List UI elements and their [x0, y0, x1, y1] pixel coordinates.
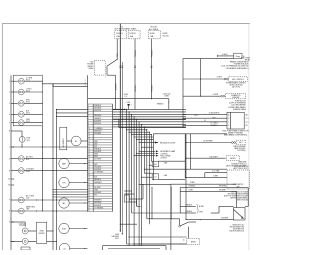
svg-text:24: 24	[88, 164, 90, 166]
svg-text:BLU/WHT: BLU/WHT	[94, 159, 101, 161]
svg-text:Relay: Relay	[236, 56, 240, 58]
svg-text:B5: B5	[246, 125, 248, 127]
svg-text:4 GRN: 4 GRN	[222, 54, 228, 56]
svg-text:BLK/WHT: BLK/WHT	[94, 192, 101, 194]
svg-text:GRN/BLK: GRN/BLK	[94, 118, 102, 120]
svg-text:RED/BLK: RED/BLK	[94, 179, 102, 181]
svg-text:GRN/WHT: GRN/WHT	[94, 182, 102, 184]
svg-text:21: 21	[88, 156, 90, 158]
svg-text:BLOCK: BLOCK	[163, 35, 170, 37]
svg-text:OUTPUT: OUTPUT	[160, 158, 166, 160]
svg-text:7 WHT: 7 WHT	[188, 189, 193, 191]
svg-text:26: 26	[88, 169, 90, 171]
svg-text:PNK/BLK: PNK/BLK	[185, 204, 193, 206]
svg-text:LT GRN/BLK: LT GRN/BLK	[94, 207, 104, 209]
svg-text:CLUSTER): CLUSTER)	[237, 150, 246, 152]
svg-text:H: H	[9, 222, 10, 224]
svg-text:DRIVER: DRIVER	[38, 233, 45, 235]
svg-text:5: 5	[105, 76, 106, 78]
svg-text:39: 39	[88, 202, 90, 204]
svg-text:PPL/WHT: PPL/WHT	[94, 133, 101, 135]
svg-text:(4P, 2P-R): (4P, 2P-R)	[232, 87, 240, 89]
svg-text:F: F	[9, 200, 10, 202]
svg-text:E3: E3	[8, 185, 10, 187]
svg-text:32: 32	[88, 184, 90, 186]
svg-text:IGNITION COIL: IGNITION COIL	[232, 224, 244, 226]
svg-text:27: 27	[88, 172, 90, 174]
svg-text:PNK/BLK: PNK/BLK	[185, 211, 193, 213]
svg-text:15: 15	[88, 141, 90, 143]
svg-text:S128: S128	[127, 102, 131, 104]
svg-text:13: 13	[88, 136, 90, 138]
svg-text:1: 1	[9, 81, 10, 83]
svg-text:B: B	[9, 131, 10, 133]
svg-text:A/C CONTROL: A/C CONTROL	[232, 78, 244, 81]
svg-text:36: 36	[88, 195, 90, 197]
svg-text:C1 +: C1 +	[246, 118, 249, 120]
svg-text:BRN/WHT: BRN/WHT	[94, 200, 101, 202]
svg-text:FUEL PUMP: FUEL PUMP	[241, 57, 250, 59]
svg-text:LOW OIL: LOW OIL	[19, 223, 26, 225]
svg-text:CONN: CONN	[164, 96, 169, 98]
svg-text:LVL SW: LVL SW	[19, 225, 25, 227]
svg-text:ORN: ORN	[199, 211, 202, 213]
svg-text:42: 42	[88, 210, 90, 212]
svg-text:CONTROL: CONTROL	[160, 153, 168, 155]
svg-text:19: 19	[88, 151, 90, 153]
svg-text:BLK/WHT: BLK/WHT	[116, 83, 118, 90]
svg-text:CHECK ENGINE: CHECK ENGINE	[233, 146, 246, 148]
svg-text:PNK/BLK: PNK/BLK	[211, 125, 219, 127]
svg-text:14: 14	[204, 120, 206, 122]
svg-text:33: 33	[88, 187, 90, 189]
svg-text:4: 4	[9, 114, 10, 116]
svg-text:38: 38	[88, 200, 90, 202]
svg-text:G117: G117	[115, 238, 119, 240]
svg-text:LIGHTER: LIGHTER	[232, 97, 240, 99]
svg-text:C-1: C-1	[125, 96, 128, 98]
svg-text:16: 16	[88, 143, 90, 145]
svg-text:IGNITION MODULE: IGNITION MODULE	[229, 230, 245, 232]
svg-text:FIELD SENSE: FIELD SENSE	[160, 156, 170, 158]
svg-text:LMP: LMP	[26, 208, 29, 210]
svg-text:41: 41	[88, 207, 90, 209]
svg-text:37: 37	[88, 197, 90, 199]
svg-text:B WHT: B WHT	[199, 206, 204, 208]
svg-text:BLK/WHT: BLK/WHT	[94, 151, 101, 153]
svg-text:E2: E2	[8, 179, 10, 181]
svg-text:T GRN/BLK: T GRN/BLK	[94, 128, 103, 130]
svg-text:20: 20	[88, 154, 90, 156]
svg-text:3: 3	[9, 103, 10, 105]
svg-text:14: 14	[183, 240, 185, 242]
svg-text:BLK/WHT: BLK/WHT	[94, 169, 101, 171]
svg-text:2: 2	[9, 92, 10, 94]
svg-text:CONNECTOR (DLC): CONNECTOR (DLC)	[231, 164, 247, 166]
svg-text:25: 25	[88, 166, 90, 168]
svg-text:WHT/BLK: WHT/BLK	[94, 115, 102, 117]
svg-text:22: 22	[88, 159, 90, 161]
svg-text:10: 10	[88, 128, 90, 130]
svg-text:28: 28	[88, 174, 90, 176]
svg-text:FUEL PUMP PRIME CONNECTOR: FUEL PUMP PRIME CONNECTOR	[223, 131, 250, 133]
svg-text:11: 11	[88, 131, 90, 133]
svg-text:4 GRY: 4 GRY	[217, 77, 223, 79]
svg-text:PNK/BLK: PNK/BLK	[135, 49, 137, 57]
svg-text:35: 35	[88, 192, 90, 194]
svg-text:BLK/PNK: BLK/PNK	[94, 110, 102, 112]
svg-text:ENGINE: ENGINE	[87, 64, 93, 66]
svg-text:4 ORN: 4 ORN	[213, 94, 219, 96]
svg-text:DISTRIBUTOR: DISTRIBUTOR	[233, 184, 244, 186]
svg-text:C2: C2	[154, 177, 156, 179]
svg-text:31: 31	[88, 182, 90, 184]
svg-text:PPL: PPL	[94, 195, 97, 197]
svg-text:40: 40	[88, 205, 90, 207]
svg-text:C200/C210: C200/C210	[163, 94, 171, 96]
svg-text:HOT IN RUN AND START: HOT IN RUN AND START	[115, 28, 138, 31]
svg-text:23: 23	[88, 161, 90, 163]
svg-text:PNK/BLK: PNK/BLK	[135, 84, 137, 92]
svg-text:PNK/BLK: PNK/BLK	[94, 148, 102, 150]
svg-text:PPL/WHT: PPL/WHT	[94, 166, 101, 168]
svg-text:E: E	[9, 170, 10, 172]
svg-text:(UNDER: (UNDER	[87, 66, 94, 68]
svg-text:PNK/BLK: PNK/BLK	[94, 105, 102, 107]
svg-text:PNK/BLK: PNK/BLK	[151, 84, 153, 92]
svg-text:DISTRIBUTOR P/N: DISTRIBUTOR P/N	[234, 166, 249, 168]
svg-text:29: 29	[88, 177, 90, 179]
svg-text:(BOTTOM OF DIST): (BOTTOM OF DIST)	[233, 168, 248, 170]
svg-text:SEE GROUND: SEE GROUND	[237, 199, 249, 201]
svg-text:5: 5	[9, 122, 10, 124]
svg-text:PNK/BLK: PNK/BLK	[151, 49, 153, 57]
svg-text:1.8L HEATED WINDSHIELD): 1.8L HEATED WINDSHIELD)	[225, 67, 248, 70]
svg-text:DISTRIBUTOR: DISTRIBUTOR	[233, 228, 245, 230]
svg-text:18: 18	[88, 148, 90, 150]
svg-text:SOL: SOL	[27, 140, 30, 142]
svg-text:DK GRN: DK GRN	[94, 187, 101, 189]
svg-text:C1: C1	[121, 26, 123, 28]
svg-text:30: 30	[88, 179, 90, 181]
svg-text:PNK/BLK: PNK/BLK	[157, 103, 165, 105]
svg-text:(IN DISTRIBUTOR): (IN DISTRIBUTOR)	[230, 226, 245, 228]
svg-text:34: 34	[88, 189, 90, 191]
svg-text:LT GRN/BLK: LT GRN/BLK	[94, 172, 104, 174]
svg-text:BLK/RED: BLK/RED	[94, 123, 102, 125]
svg-text:GRY/RED: GRY/RED	[94, 202, 102, 204]
svg-text:BRN/WHT: BRN/WHT	[94, 131, 101, 133]
svg-text:BLK/WHT: BLK/WHT	[94, 205, 101, 207]
svg-text:C LT GRN: C LT GRN	[212, 171, 220, 173]
svg-text:PPL/WHT: PPL/WHT	[219, 189, 226, 191]
svg-text:C2 +: C2 +	[246, 122, 249, 124]
svg-text:14: 14	[88, 138, 90, 140]
svg-text:(BEHIND DASH): (BEHIND DASH)	[233, 108, 246, 111]
svg-text:ALL TIMES: ALL TIMES	[149, 28, 159, 31]
svg-text:12: 12	[88, 133, 90, 135]
svg-text:C100: C100	[90, 62, 94, 64]
svg-text:BLK/WHT: BLK/WHT	[94, 120, 101, 122]
svg-text:B: B	[228, 118, 229, 120]
svg-text:WHT: WHT	[94, 156, 98, 158]
svg-text:GRY/RED: GRY/RED	[94, 108, 102, 110]
svg-text:17: 17	[88, 146, 90, 148]
